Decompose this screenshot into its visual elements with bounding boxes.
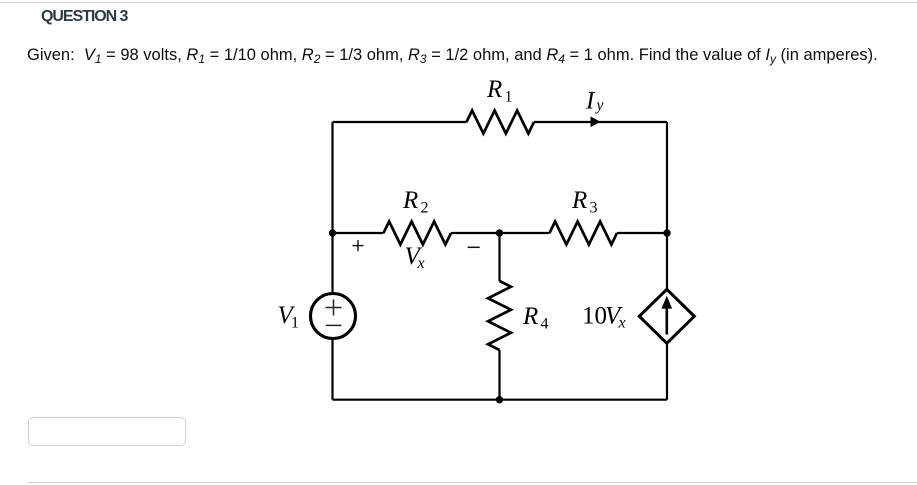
svg-text:4: 4	[541, 316, 549, 333]
wire top-left segment	[333, 121, 467, 123]
resistor R2	[384, 222, 452, 245]
wire middle (node B to R3)	[500, 232, 550, 234]
label R4	[522, 303, 549, 333]
svg-text:3: 3	[590, 200, 598, 217]
wire middle right (R3 to right rail)	[617, 232, 667, 234]
node A (left middle junction)	[329, 229, 336, 236]
svg-text:1: 1	[291, 315, 299, 332]
label 10Vx	[582, 302, 626, 331]
node D (bottom center junction)	[496, 396, 503, 403]
label minus polarity Vx	[468, 246, 480, 248]
node B (center middle junction)	[496, 229, 503, 236]
label V1 (source)	[278, 302, 300, 332]
label R2	[402, 187, 429, 217]
wire left vertical (V1 source to bottom)	[331, 340, 333, 400]
V1 plus sign	[326, 300, 342, 316]
label R1	[486, 76, 513, 106]
label Vx	[405, 243, 425, 272]
resistor R3	[550, 222, 618, 245]
svg-text:1: 1	[505, 89, 513, 106]
wire middle left (node A to R2)	[333, 232, 384, 234]
svg-text:R: R	[522, 303, 538, 330]
node C (right middle junction)	[663, 229, 670, 236]
svg-text:R: R	[402, 187, 418, 214]
label R3	[571, 187, 598, 217]
svg-text:R: R	[571, 187, 587, 214]
svg-text:x: x	[618, 315, 626, 332]
svg-text:I: I	[585, 88, 596, 115]
resistor R4	[488, 281, 511, 350]
wire center vertical (node B to R4)	[498, 233, 500, 281]
resistor R1	[467, 111, 535, 134]
dependent source arrow	[665, 308, 668, 335]
wire top-right segment	[534, 121, 667, 123]
label plus polarity Vx	[353, 240, 364, 251]
dependent current source 10Vx (diamond)	[639, 289, 694, 343]
current Iy arrowhead on top wire	[591, 117, 601, 128]
svg-text:x: x	[417, 255, 425, 272]
svg-text:R: R	[486, 76, 502, 103]
wire left vertical (top node to V1 source)	[331, 122, 333, 293]
svg-text:10: 10	[582, 302, 607, 329]
voltage source V1	[311, 294, 356, 339]
svg-text:y: y	[595, 97, 604, 114]
label Iy	[585, 88, 604, 115]
wire center vertical (R4 to bottom node)	[498, 350, 500, 400]
svg-text:2: 2	[421, 200, 429, 217]
wire middle (R2 to node B)	[451, 232, 500, 234]
V1 minus sign	[326, 324, 342, 326]
wire right vertical (dependent source to bottom)	[666, 344, 668, 400]
wire right vertical (top corner to dependent source)	[666, 122, 668, 290]
wire bottom	[333, 399, 668, 401]
